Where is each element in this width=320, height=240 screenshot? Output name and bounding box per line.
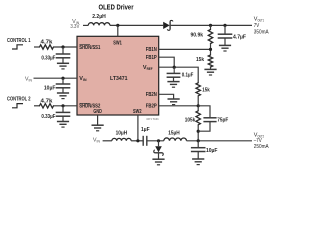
svg-text:15k: 15k <box>196 57 205 63</box>
svg-text:15k: 15k <box>202 87 210 93</box>
svg-text:SHDN/SS1: SHDN/SS1 <box>79 45 100 51</box>
svg-text:SW1: SW1 <box>113 40 122 46</box>
svg-text:CONTROL 1: CONTROL 1 <box>7 38 31 44</box>
svg-text:4.7k: 4.7k <box>41 99 54 105</box>
svg-text:1µF: 1µF <box>141 127 150 133</box>
svg-text:FB1P: FB1P <box>146 55 157 61</box>
svg-text:SW2: SW2 <box>133 109 142 115</box>
svg-text:105k: 105k <box>185 117 196 123</box>
svg-text:10µF: 10µF <box>44 85 56 91</box>
svg-text:LT3471: LT3471 <box>110 76 128 82</box>
svg-text:2.2µH: 2.2µH <box>92 14 106 20</box>
svg-text:250mA: 250mA <box>254 144 269 150</box>
svg-text:FB2P: FB2P <box>146 104 157 110</box>
svg-text:10µF: 10µF <box>206 148 218 154</box>
svg-text:90.9k: 90.9k <box>191 33 204 39</box>
svg-text:OLED Driver: OLED Driver <box>99 5 134 12</box>
svg-text:FB2N: FB2N <box>146 92 157 98</box>
svg-text:4.7k: 4.7k <box>41 40 54 46</box>
svg-text:3.3V: 3.3V <box>70 24 79 30</box>
svg-text:GND: GND <box>93 109 102 115</box>
svg-text:CONTROL 2: CONTROL 2 <box>7 97 31 103</box>
svg-text:4.7µF: 4.7µF <box>233 34 246 40</box>
svg-text:15µH: 15µH <box>168 130 180 136</box>
svg-text:350mA: 350mA <box>254 30 269 36</box>
svg-text:7V: 7V <box>254 23 260 29</box>
svg-text:75pF: 75pF <box>217 117 228 123</box>
svg-text:0.1µF: 0.1µF <box>182 73 194 79</box>
svg-text:0.33µF: 0.33µF <box>41 114 55 120</box>
svg-text:3471 TA01: 3471 TA01 <box>146 117 159 121</box>
svg-text:0.33µF: 0.33µF <box>41 55 55 61</box>
svg-text:FB1N: FB1N <box>146 47 157 53</box>
svg-text:10µH: 10µH <box>116 130 128 136</box>
